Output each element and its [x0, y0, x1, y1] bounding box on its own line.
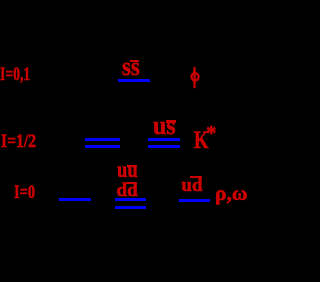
label I=0	[14, 183, 35, 202]
quark label us-bar text	[153, 113, 176, 139]
level line ss-bar (phi level)	[118, 79, 150, 82]
level line ud-bar (rho/omega)	[179, 199, 210, 202]
label I=1/2	[1, 132, 36, 151]
label rho,omega	[215, 185, 248, 205]
quark label ss-bar text	[122, 54, 140, 80]
level line K* left pair upper	[85, 138, 120, 141]
quark label dd-bar text	[117, 181, 138, 200]
level line I=0 left	[59, 198, 91, 201]
level line K* left pair lower	[85, 145, 120, 148]
level line dd-bar upper	[115, 198, 146, 201]
label K*	[194, 128, 209, 153]
level line K* right pair lower	[148, 145, 180, 148]
overbar of ss-bar	[130, 60, 139, 62]
phi symbol U1: ring	[186, 64, 204, 94]
overbar of dd-bar	[126, 182, 137, 184]
asterisk of K*	[206, 123, 217, 144]
overbar of us-bar	[166, 120, 177, 123]
overbar of uu-bar	[127, 165, 137, 167]
level line dd-bar lower	[115, 206, 146, 209]
label I=0,1	[0, 65, 30, 84]
quark label ud-bar text	[181, 176, 202, 195]
level line K* right pair upper	[148, 138, 180, 141]
overbar of ud-bar	[190, 176, 202, 178]
quark label uu-bar text	[117, 158, 138, 181]
